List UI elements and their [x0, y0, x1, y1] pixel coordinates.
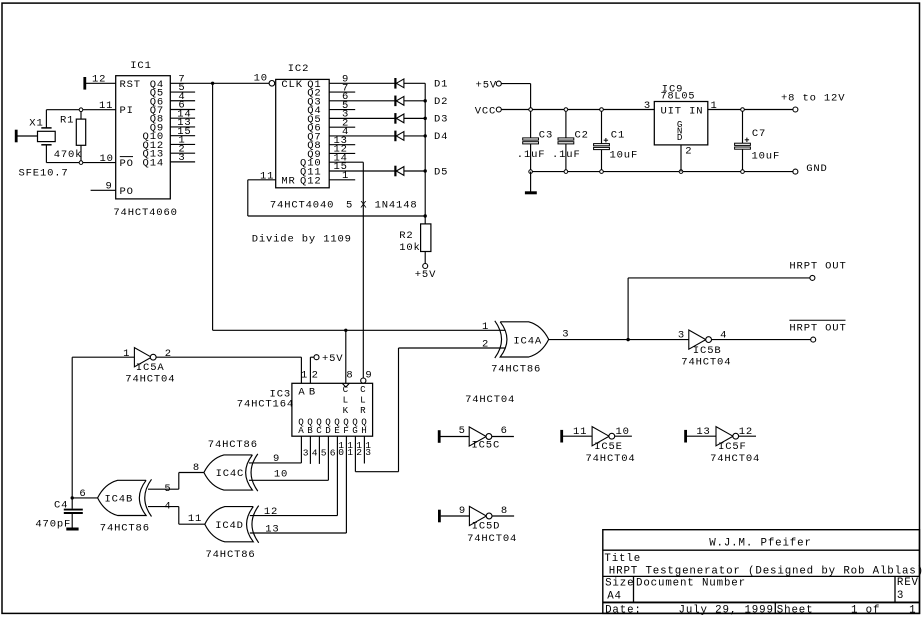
svg-text:11: 11: [99, 100, 113, 112]
diode D5 1N4148: [395, 166, 448, 179]
svg-text:74HCT86: 74HCT86: [491, 364, 541, 376]
xor gate IC4D 74HCT86: [205, 506, 280, 561]
svg-text:Title: Title: [604, 553, 641, 565]
svg-text:VCC: VCC: [475, 105, 496, 117]
svg-text:R: R: [360, 405, 366, 416]
svg-text:2: 2: [685, 146, 692, 158]
svg-text:12: 12: [264, 506, 278, 518]
svg-text:8: 8: [193, 462, 200, 474]
title block text: [604, 538, 924, 617]
svg-text:74HCT4040: 74HCT4040: [270, 199, 334, 211]
svg-text:IC5B: IC5B: [693, 345, 722, 357]
svg-text:10uF: 10uF: [610, 149, 639, 161]
svg-text:9: 9: [459, 505, 466, 517]
capacitor C2 .1uF: [552, 110, 589, 172]
svg-text:1 of: 1 of: [851, 605, 880, 617]
svg-text:+5V: +5V: [476, 80, 497, 92]
wire IC3 QB pin4 stub: [309, 436, 311, 464]
svg-text:C: C: [343, 384, 349, 395]
svg-text:C7: C7: [752, 128, 766, 140]
diode D2 1N4148: [395, 96, 448, 109]
svg-text:UIT IN: UIT IN: [661, 105, 704, 117]
svg-text:3: 3: [644, 100, 651, 112]
svg-text:B: B: [307, 425, 313, 436]
wire IC1 Q4 pin7 to clock node: [170, 73, 212, 85]
node ground rail junctions: [529, 170, 683, 174]
wire VCC rail: [501, 109, 654, 111]
svg-text:2: 2: [165, 348, 172, 360]
ground symbol: [525, 172, 537, 193]
node PO junction: [79, 161, 83, 165]
svg-text:Sheet: Sheet: [777, 605, 814, 617]
svg-text:Date:: Date:: [605, 605, 642, 617]
node VCC rail junctions: [529, 108, 604, 112]
output terminal HRPT OUT inverted: [789, 320, 846, 342]
svg-text:74HCT164: 74HCT164: [237, 398, 294, 410]
resistor R1 470k: [54, 110, 86, 163]
svg-text:A: A: [298, 425, 304, 436]
power terminal +5V input: [476, 80, 502, 92]
IC3 pin number labels below box: [303, 440, 372, 458]
text 74HCT04 label for IC5C: [465, 394, 515, 406]
IC2 output stubs and pin numbers: [329, 74, 395, 182]
wire IC5A input feedback vertical: [71, 357, 73, 498]
svg-text:2: 2: [482, 339, 489, 351]
svg-text:5: 5: [459, 425, 466, 437]
IC counter U=IC2 74HCT4040 body: [270, 63, 334, 211]
wire IC9 ground pin2: [680, 145, 682, 172]
svg-text:SFE10.7: SFE10.7: [19, 167, 69, 179]
IC3 pin8 CLK wire: [346, 330, 354, 383]
svg-text:HRPT OUT: HRPT OUT: [789, 260, 846, 272]
svg-text:2: 2: [312, 369, 319, 381]
node CLK junction: [344, 329, 347, 332]
node PI junction: [79, 108, 83, 112]
IC3 pin9 CLR bubble: [361, 369, 373, 383]
svg-text:C: C: [360, 384, 366, 395]
svg-text:10: 10: [274, 468, 288, 480]
svg-text:IC5D: IC5D: [472, 520, 501, 532]
wire IC3 QG pin12 to IC4A input 2: [355, 348, 505, 472]
svg-text:4: 4: [164, 501, 171, 513]
svg-text:74HCT86: 74HCT86: [206, 549, 256, 561]
svg-text:G: G: [352, 425, 358, 436]
node C7 junctions: [741, 108, 745, 174]
svg-text:R1: R1: [60, 115, 74, 127]
wire to HRPT OUT terminal: [628, 278, 810, 340]
svg-text:C1: C1: [611, 129, 625, 141]
svg-text:Q12: Q12: [300, 175, 321, 187]
svg-text:10k: 10k: [399, 242, 420, 254]
svg-text:D3: D3: [434, 114, 448, 126]
inverter IC5D 74HCT04: [439, 505, 517, 545]
svg-text:IC4B: IC4B: [105, 494, 134, 506]
svg-text:6: 6: [330, 447, 337, 458]
voltage regulator IC9 78L05: [644, 83, 718, 157]
wire IC1 pin11 PI: [81, 100, 116, 112]
text divide by 1109: [252, 234, 352, 246]
wire X1 bottom to PO node: [46, 162, 81, 164]
svg-text:5 X 1N4148: 5 X 1N4148: [346, 199, 418, 211]
svg-text:D1: D1: [434, 79, 448, 91]
svg-text:12: 12: [739, 426, 753, 438]
xor gate IC4B 74HCT86: [72, 479, 151, 534]
svg-text:IC5C: IC5C: [472, 440, 501, 452]
svg-text:.1uF: .1uF: [517, 149, 546, 161]
svg-text:IC5A: IC5A: [136, 362, 165, 374]
svg-text:1: 1: [347, 447, 354, 458]
svg-text:C: C: [316, 425, 322, 436]
svg-text:74HCT04: 74HCT04: [586, 453, 636, 465]
IC3 pin1 A input wire: [301, 357, 308, 383]
svg-text:3: 3: [365, 447, 372, 458]
node feedback junction at C4: [71, 496, 74, 499]
inverter IC5B 74HCT04: [678, 330, 811, 369]
svg-text:7: 7: [178, 73, 185, 85]
svg-text:1: 1: [123, 348, 130, 360]
svg-text:74HCT04: 74HCT04: [681, 357, 731, 369]
svg-text:C3: C3: [539, 129, 553, 141]
svg-text:.1uF: .1uF: [552, 149, 581, 161]
svg-text:B: B: [309, 386, 316, 398]
wire IC9 output pin1: [708, 109, 793, 111]
diode D1 1N4148: [395, 78, 448, 91]
wire IC3 QH pin13 stub: [363, 436, 365, 463]
svg-text:IC5E: IC5E: [594, 441, 623, 453]
svg-text:1: 1: [482, 321, 489, 333]
svg-text:HRPT Testgenerator (Designed b: HRPT Testgenerator (Designed by Rob Albl…: [609, 565, 924, 577]
svg-text:9: 9: [106, 181, 113, 193]
IC1 output stubs Q5-Q14 with pin numbers: [170, 82, 195, 164]
svg-text:Q14: Q14: [143, 157, 164, 169]
inverter IC5C 74HCT04: [439, 425, 514, 451]
svg-text:74HCT4060: 74HCT4060: [113, 207, 177, 219]
capacitor C1 10uF polarized: [594, 110, 639, 172]
svg-text:Size: Size: [605, 577, 634, 589]
svg-text:10: 10: [100, 153, 114, 165]
wire diode common cathode vertical: [424, 83, 426, 216]
svg-text:5: 5: [164, 483, 171, 495]
svg-text:470k: 470k: [54, 149, 83, 161]
wire ground rail: [531, 171, 796, 173]
svg-text:74HCT04: 74HCT04: [467, 533, 517, 545]
svg-text:3: 3: [678, 330, 685, 342]
svg-text:11: 11: [260, 170, 274, 182]
svg-text:A: A: [298, 386, 305, 398]
svg-text:3: 3: [178, 152, 185, 164]
svg-text:74HCT04: 74HCT04: [465, 394, 515, 406]
svg-text:10: 10: [254, 73, 268, 85]
IC2 MR pin 11 wire: [248, 170, 425, 216]
diode D4 1N4148: [395, 131, 448, 144]
svg-text:74HCT86: 74HCT86: [100, 522, 150, 534]
svg-text:PO: PO: [120, 158, 134, 170]
wire IC3 QF pin11 to IC4D input 13: [250, 436, 347, 533]
svg-text:IC5F: IC5F: [718, 441, 747, 453]
text 5 X 1N4148: [346, 199, 418, 211]
svg-text:9: 9: [273, 453, 280, 465]
svg-text:X1: X1: [29, 118, 43, 130]
svg-text:IC2: IC2: [288, 63, 309, 75]
svg-text:CLK: CLK: [281, 79, 302, 91]
wire IC1 pin9 PO: [91, 181, 116, 193]
svg-text:D5: D5: [434, 166, 448, 178]
svg-text:Document Number: Document Number: [636, 577, 746, 589]
svg-text:+5V: +5V: [415, 269, 436, 281]
svg-text:3: 3: [303, 447, 310, 458]
IC shift register U=IC3 74HCT164 body: [237, 383, 373, 436]
svg-text:+8 to 12V: +8 to 12V: [781, 92, 845, 104]
wire clock vertical drop: [212, 83, 214, 330]
svg-text:H: H: [361, 425, 367, 436]
diode D3 1N4148: [395, 113, 448, 126]
svg-text:1: 1: [301, 369, 308, 381]
svg-text:GND: GND: [806, 163, 827, 175]
capacitor C3 .1uF: [517, 110, 553, 172]
wire IC3 QC pin5 stub: [318, 436, 320, 464]
svg-text:9: 9: [365, 369, 372, 381]
wire Q10 to IC3 CLR: [362, 162, 364, 378]
svg-text:IC4C: IC4C: [216, 468, 245, 480]
node HRPT branch junction: [626, 338, 629, 341]
svg-text:6: 6: [79, 488, 86, 500]
wire IC4A output 3: [549, 339, 689, 341]
wire clock to IC4A input 1: [213, 329, 505, 331]
wire X1 top to PI node: [46, 109, 81, 111]
svg-text:W.J.M. Pfeifer: W.J.M. Pfeifer: [709, 538, 812, 550]
svg-text:R2: R2: [399, 230, 413, 242]
output terminal GND: [793, 163, 828, 175]
wire clock to IC2 CLK: [213, 82, 270, 84]
IC counter U=IC1 74HCT4060 body: [113, 60, 177, 219]
capacitor C7 10uF polarized: [735, 110, 781, 172]
output terminal HRPT OUT: [789, 260, 846, 280]
svg-text:470pF: 470pF: [35, 519, 71, 531]
svg-text:IC1: IC1: [130, 60, 151, 72]
svg-text:2: 2: [356, 447, 363, 458]
svg-text:0: 0: [338, 447, 345, 458]
wire IC4B input 4 from IC4D output 11: [148, 501, 205, 526]
svg-text:IC4A: IC4A: [513, 335, 542, 347]
svg-text:F: F: [343, 425, 349, 436]
svg-text:C2: C2: [575, 129, 589, 141]
inverter IC5A 74HCT04: [72, 348, 301, 386]
inverter IC5F 74HCT04: [686, 426, 761, 465]
svg-text:PO: PO: [120, 186, 134, 198]
svg-text:MR: MR: [281, 175, 295, 187]
svg-text:REV: REV: [897, 577, 919, 589]
resistor R2 10k: [399, 216, 431, 264]
svg-text:74HCT04: 74HCT04: [710, 453, 760, 465]
xor gate IC4C 74HCT86: [204, 439, 288, 491]
svg-text:10uF: 10uF: [752, 151, 781, 163]
svg-text:5: 5: [321, 447, 328, 458]
node diode bus junctions: [424, 99, 427, 218]
svg-text:K: K: [343, 405, 349, 416]
svg-text:3: 3: [897, 590, 904, 602]
svg-text:4: 4: [312, 447, 319, 458]
svg-text:PI: PI: [120, 105, 134, 117]
svg-text:D2: D2: [434, 96, 448, 108]
svg-text:78L05: 78L05: [661, 92, 696, 103]
svg-text:74HCT86: 74HCT86: [208, 439, 258, 451]
svg-text:+5V: +5V: [322, 353, 343, 365]
IC1 pin 12 RST input port: [85, 73, 116, 89]
svg-text:D: D: [677, 132, 683, 143]
IC3 pin2 B input wire: [310, 357, 318, 383]
svg-text:10: 10: [615, 426, 629, 438]
ceramic filter X1 SFE10.7: [16, 110, 68, 180]
wire IC4B input 5 from IC4C output 8: [148, 462, 204, 495]
svg-text:4: 4: [720, 330, 727, 342]
svg-text:Divide by 1109: Divide by 1109: [252, 234, 352, 246]
svg-text:74HCT04: 74HCT04: [125, 373, 175, 385]
svg-text:E: E: [334, 425, 340, 436]
svg-text:HRPT OUT: HRPT OUT: [789, 322, 846, 334]
svg-text:12: 12: [92, 73, 106, 85]
power terminal VCC: [475, 105, 502, 117]
svg-text:11: 11: [573, 426, 587, 438]
svg-text:13: 13: [265, 523, 279, 535]
svg-text:8: 8: [501, 505, 508, 517]
xor gate IC4A 74HCT86: [482, 321, 569, 376]
svg-text:C4: C4: [54, 499, 68, 511]
title block frame: [603, 530, 920, 614]
svg-text:D4: D4: [434, 131, 448, 143]
svg-text:6: 6: [501, 425, 508, 437]
svg-text:8: 8: [346, 369, 353, 381]
wire IC3 QD pin6 to IC4C input 10: [249, 436, 328, 480]
wire +5V to rail: [501, 84, 530, 110]
inverter IC5E 74HCT04: [562, 426, 636, 465]
svg-text:IC4D: IC4D: [215, 520, 244, 532]
svg-text:3: 3: [562, 328, 569, 340]
svg-text:RST: RST: [120, 79, 141, 91]
svg-text:A4: A4: [607, 591, 622, 603]
svg-text:13: 13: [696, 426, 710, 438]
wire IC3 QA pin3 to IC4C input 9: [249, 436, 301, 463]
svg-text:July 29, 1999: July 29, 1999: [679, 605, 774, 617]
svg-text:11: 11: [188, 513, 202, 525]
wire IC3 QE pin10 to IC4D input 12: [250, 436, 338, 515]
output terminal +8 to 12V: [781, 92, 845, 112]
power terminal +5V at IC3 pin2: [314, 353, 343, 365]
capacitor C4 470pF: [35, 498, 82, 531]
svg-text:1: 1: [909, 605, 916, 617]
IC2 CLK inversion bubble pin 10: [254, 73, 275, 87]
wire IC1 pin10 PO: [81, 153, 116, 165]
power terminal +5V below R2: [415, 264, 436, 282]
svg-text:D: D: [325, 425, 331, 436]
node clock junction at IC1 Q4: [211, 82, 214, 85]
